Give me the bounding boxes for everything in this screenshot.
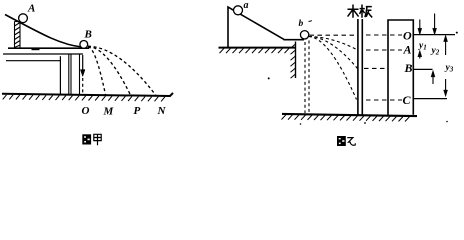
dot at end of O extension: [456, 32, 458, 34]
lower ground hatching: [282, 115, 410, 122]
ball A: [19, 14, 28, 23]
svg-text:B: B: [404, 61, 413, 75]
svg-text:B: B: [84, 29, 92, 41]
table leg 1: [59, 56, 61, 94]
dashed vertical drop lines under b: [305, 41, 309, 114]
svg-text:N: N: [157, 105, 167, 117]
O level extension line: [413, 34, 455, 36]
ball B: [80, 41, 88, 49]
svg-text:A: A: [403, 43, 412, 57]
platform top hatching: [220, 48, 290, 53]
svg-text:O: O: [403, 29, 412, 43]
trajectory b to B: [309, 37, 358, 69]
support post (hatched): [15, 22, 21, 48]
platform edge wall: [295, 42, 297, 79]
trajectory to M: [88, 47, 106, 95]
ground (figure jia): [2, 93, 173, 96]
svg-text:M: M: [103, 106, 115, 118]
label mu-ban (wooden board): [348, 5, 373, 18]
y1 dimension arrows: [418, 20, 422, 59]
B level extension line: [413, 68, 432, 70]
table top underside: [3, 53, 83, 55]
dashed level line O: [366, 34, 402, 36]
incline track A to table: [5, 15, 86, 48]
svg-text:y1: y1: [418, 41, 427, 52]
dashed level line B: [364, 67, 386, 69]
stray specks: [364, 122, 366, 124]
ball a: [234, 6, 243, 15]
trajectory to P: [88, 47, 131, 96]
caption tu-yi: [337, 136, 355, 146]
svg-text:y2: y2: [431, 46, 440, 57]
velocity arrow (down): [80, 55, 85, 77]
trajectory to N: [88, 46, 156, 95]
svg-text:C: C: [403, 93, 412, 107]
y3 dimension arrows: [444, 35, 448, 97]
trajectory b to A: [309, 37, 358, 51]
svg-text:y3: y3: [445, 63, 454, 74]
dashed level line C: [366, 99, 402, 101]
svg-text:A: A: [27, 3, 35, 15]
table lower rail: [6, 60, 61, 62]
dashed drop line to O: [82, 78, 84, 94]
dark blob on underside: [32, 49, 40, 51]
lower ground: [282, 114, 417, 116]
platform top (upper ground): [219, 47, 296, 49]
svg-text:O: O: [82, 105, 90, 117]
incline triangle: [228, 7, 304, 48]
table leg 3: [79, 55, 81, 95]
svg-text:b: b: [299, 19, 304, 29]
stray dash near b: [309, 20, 313, 23]
table top surface: [8, 47, 89, 49]
horizontal dashed line from b to board (O level): [310, 34, 358, 36]
platform edge hatching: [291, 44, 296, 78]
caption tu-jia: [82, 134, 101, 145]
y2 dimension arrows: [431, 14, 437, 85]
trajectory b to C: [309, 37, 357, 100]
dashed level line A: [366, 49, 402, 51]
wooden board: [358, 19, 362, 115]
ball b: [300, 31, 308, 39]
C level extension line: [413, 98, 447, 100]
ground hatching (figure jia): [3, 95, 165, 102]
svg-text:P: P: [134, 105, 141, 117]
table leg 2 (pair): [69, 55, 71, 95]
svg-text:a: a: [244, 0, 249, 11]
pillar block: [388, 20, 413, 115]
